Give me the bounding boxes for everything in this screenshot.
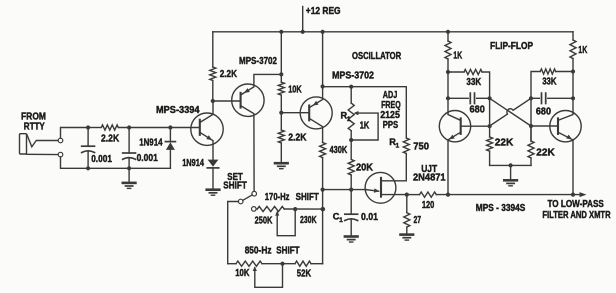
svg-text:20K: 20K bbox=[356, 162, 373, 173]
svg-text:1K: 1K bbox=[360, 120, 370, 131]
svg-text:750: 750 bbox=[413, 142, 429, 153]
svg-text:2.2K: 2.2K bbox=[220, 69, 237, 80]
svg-text:2.2K: 2.2K bbox=[288, 132, 306, 143]
svg-text:27: 27 bbox=[414, 215, 422, 226]
svg-text:430K: 430K bbox=[330, 145, 348, 156]
svg-text:2N4871: 2N4871 bbox=[413, 173, 446, 184]
svg-text:10K: 10K bbox=[235, 268, 249, 279]
svg-text:22K: 22K bbox=[536, 147, 555, 158]
svg-text:MPS-3702: MPS-3702 bbox=[239, 56, 277, 67]
svg-text:33K: 33K bbox=[466, 77, 481, 88]
svg-text:680: 680 bbox=[470, 104, 486, 115]
svg-text:RTTY: RTTY bbox=[24, 122, 45, 133]
svg-text:33K: 33K bbox=[542, 76, 556, 87]
svg-text:10K: 10K bbox=[288, 84, 302, 95]
svg-text:2.2K: 2.2K bbox=[101, 134, 119, 145]
svg-text:850-Hz: 850-Hz bbox=[245, 245, 272, 256]
svg-text:0.01: 0.01 bbox=[361, 212, 378, 223]
svg-text:FLIP-FLOP: FLIP-FLOP bbox=[490, 41, 533, 52]
svg-text:1K: 1K bbox=[578, 45, 587, 56]
svg-text:MPS-3394: MPS-3394 bbox=[156, 105, 200, 116]
svg-text:1N914: 1N914 bbox=[182, 158, 204, 169]
svg-text:FILTER AND XMTR: FILTER AND XMTR bbox=[542, 210, 610, 221]
svg-text:120: 120 bbox=[422, 200, 435, 211]
svg-text:MPS - 3394S: MPS - 3394S bbox=[476, 203, 526, 214]
svg-text:0.001: 0.001 bbox=[137, 153, 159, 164]
svg-text:170-Hz: 170-Hz bbox=[265, 192, 290, 203]
svg-text:52K: 52K bbox=[297, 268, 311, 279]
svg-text:680: 680 bbox=[536, 106, 552, 117]
svg-text:PPS: PPS bbox=[383, 120, 399, 131]
svg-text:1N914: 1N914 bbox=[139, 138, 163, 149]
svg-text:230K: 230K bbox=[300, 215, 317, 226]
svg-text:MPS-3702: MPS-3702 bbox=[332, 71, 374, 82]
svg-text:22K: 22K bbox=[495, 138, 514, 149]
svg-text:SHIFT: SHIFT bbox=[223, 180, 247, 191]
svg-text:+12 REG: +12 REG bbox=[306, 6, 341, 17]
svg-text:1K: 1K bbox=[453, 51, 462, 62]
svg-text:TO LOW-PASS: TO LOW-PASS bbox=[548, 199, 605, 210]
svg-text:250K: 250K bbox=[255, 215, 273, 226]
svg-text:0.001: 0.001 bbox=[91, 154, 112, 165]
svg-text:SHIFT: SHIFT bbox=[296, 192, 319, 203]
svg-text:OSCILLATOR: OSCILLATOR bbox=[352, 51, 401, 62]
svg-text:SHIFT: SHIFT bbox=[276, 245, 299, 256]
